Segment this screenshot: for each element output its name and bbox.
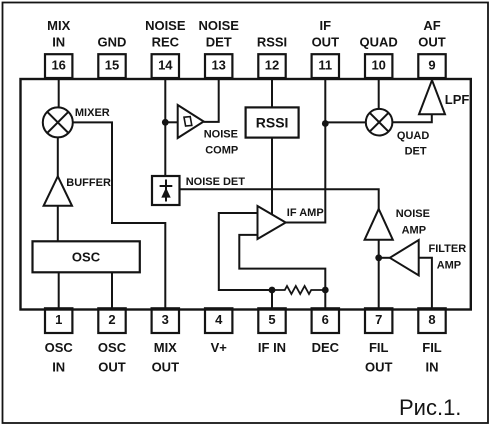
svg-text:5: 5	[268, 312, 275, 327]
pin 14 NOISE REC	[145, 18, 186, 78]
pin 16 MIX IN	[45, 18, 72, 78]
svg-text:BUFFER: BUFFER	[66, 177, 111, 189]
pin 8 FIL IN	[418, 308, 445, 374]
wire filter amp output to junction	[379, 257, 390, 259]
svg-text:OSC: OSC	[45, 340, 74, 355]
wire junction to pin 6	[324, 290, 326, 308]
wire mixer to buffer	[57, 137, 59, 176]
svg-text:OSC: OSC	[72, 250, 101, 265]
svg-text:NOISE: NOISE	[145, 18, 186, 33]
svg-text:IF AMP: IF AMP	[287, 207, 324, 219]
svg-text:OUT: OUT	[152, 360, 180, 375]
resistor between pin 5 and pin 6	[272, 286, 325, 294]
pin 6 DEC	[312, 308, 340, 355]
if amp	[258, 206, 324, 239]
svg-text:QUAD: QUAD	[397, 130, 429, 142]
IC body outline	[21, 79, 471, 310]
svg-text:8: 8	[428, 312, 435, 327]
if amp outer feedback loop pin 5	[219, 213, 272, 290]
svg-text:IN: IN	[52, 34, 65, 49]
wire quad det to lpf	[392, 114, 431, 122]
svg-text:DEC: DEC	[312, 340, 340, 355]
svg-text:14: 14	[158, 57, 173, 72]
oscillator OSC	[33, 241, 140, 272]
svg-text:NOISE DET: NOISE DET	[186, 176, 246, 188]
svg-text:7: 7	[375, 312, 382, 327]
svg-text:1: 1	[55, 312, 62, 327]
pin 11 IF OUT	[312, 18, 340, 78]
filter amp	[390, 240, 466, 275]
pin 7 FIL OUT	[365, 308, 393, 374]
svg-text:16: 16	[51, 57, 65, 72]
svg-text:10: 10	[371, 57, 385, 72]
pin 3 MIX OUT	[152, 308, 180, 374]
wire pin 8 to filter amp	[419, 258, 432, 309]
wire if amp output to pin 11	[286, 78, 326, 223]
rssi detector RSSI	[246, 107, 299, 137]
svg-text:MIX: MIX	[47, 18, 70, 33]
node if in junction	[269, 287, 276, 294]
buffer	[44, 176, 111, 206]
svg-text:RSSI: RSSI	[257, 34, 287, 49]
svg-text:NOISE: NOISE	[396, 208, 430, 220]
svg-text:FILTER: FILTER	[429, 243, 467, 255]
wire mixer output to pin 3	[73, 122, 166, 308]
svg-text:DET: DET	[206, 34, 232, 49]
svg-text:13: 13	[211, 57, 225, 72]
pin 12 RSSI	[257, 34, 287, 78]
wire pin 14 to noise detector	[164, 78, 166, 176]
svg-text:OUT: OUT	[98, 360, 126, 375]
svg-text:NOISE: NOISE	[198, 18, 239, 33]
svg-text:Рис.1.: Рис.1.	[399, 395, 461, 420]
svg-text:11: 11	[318, 57, 332, 72]
svg-text:GND: GND	[98, 34, 127, 49]
svg-text:MIXER: MIXER	[75, 107, 110, 119]
svg-text:DET: DET	[405, 146, 427, 158]
wire junction to quad det	[325, 121, 366, 123]
svg-text:V+: V+	[211, 340, 228, 355]
svg-text:AMP: AMP	[402, 224, 426, 236]
svg-text:AF: AF	[423, 18, 440, 33]
lpf amp	[419, 80, 469, 114]
svg-text:12: 12	[265, 57, 279, 72]
svg-text:OUT: OUT	[312, 34, 340, 49]
svg-text:6: 6	[322, 312, 329, 327]
wire noise amp to pin 7	[378, 240, 380, 309]
pin 15 GND	[98, 34, 127, 78]
pin 4 V+	[205, 308, 232, 355]
wire junction to noise comp	[165, 121, 177, 123]
svg-text:OSC: OSC	[98, 340, 127, 355]
noise detector	[152, 176, 245, 205]
noise amp	[365, 208, 430, 240]
svg-text:IN: IN	[426, 360, 439, 375]
node fil out junction	[375, 254, 382, 261]
wire rssi to if amp	[271, 138, 273, 215]
pin 10 QUAD	[360, 34, 398, 78]
svg-text:AMP: AMP	[437, 260, 461, 272]
svg-text:LPF: LPF	[445, 92, 470, 107]
svg-text:OUT: OUT	[365, 360, 393, 375]
if amp inner feedback loop pin 6	[239, 235, 325, 290]
svg-text:IN: IN	[52, 360, 65, 375]
svg-text:NOISE: NOISE	[204, 129, 238, 141]
pin 9 AF OUT	[418, 18, 446, 78]
figure caption	[399, 395, 461, 420]
wire pin 12 to rssi	[271, 78, 273, 107]
wire noise detector output to noise amp	[180, 189, 379, 209]
svg-text:OUT: OUT	[418, 34, 446, 49]
svg-text:QUAD: QUAD	[360, 34, 398, 49]
svg-text:RSSI: RSSI	[256, 115, 289, 131]
node noise comp input junction	[162, 119, 169, 126]
wire pin 10 to quad det	[378, 78, 380, 109]
svg-text:15: 15	[105, 57, 119, 72]
wire oscillator to pin 2	[111, 272, 113, 308]
noise comp	[178, 105, 239, 156]
svg-text:IF IN: IF IN	[258, 340, 286, 355]
quad det	[366, 109, 430, 158]
svg-text:2: 2	[108, 312, 115, 327]
wire junction to pin 5	[271, 290, 273, 308]
wire noise comp output to pin 13	[204, 78, 219, 122]
wire buffer to oscillator	[57, 206, 59, 242]
svg-text:FIL: FIL	[422, 340, 442, 355]
wire pin16 to mixer	[58, 78, 60, 107]
svg-text:3: 3	[162, 312, 169, 327]
mixer	[43, 107, 110, 137]
wire oscillator to pin 1	[58, 272, 60, 308]
svg-text:MIX: MIX	[154, 340, 177, 355]
pin 2 OSC OUT	[98, 308, 127, 374]
svg-text:4: 4	[215, 312, 223, 327]
pin 1 OSC IN	[45, 308, 74, 374]
svg-text:9: 9	[428, 57, 435, 72]
svg-text:COMP: COMP	[205, 144, 238, 156]
svg-text:IF: IF	[320, 18, 332, 33]
pin 5 IF IN	[258, 308, 286, 355]
svg-text:REC: REC	[152, 34, 180, 49]
svg-text:FIL: FIL	[369, 340, 389, 355]
pin 13 NOISE DET	[198, 18, 239, 78]
node quad det branch junction	[322, 120, 329, 127]
node dec junction	[322, 287, 329, 294]
